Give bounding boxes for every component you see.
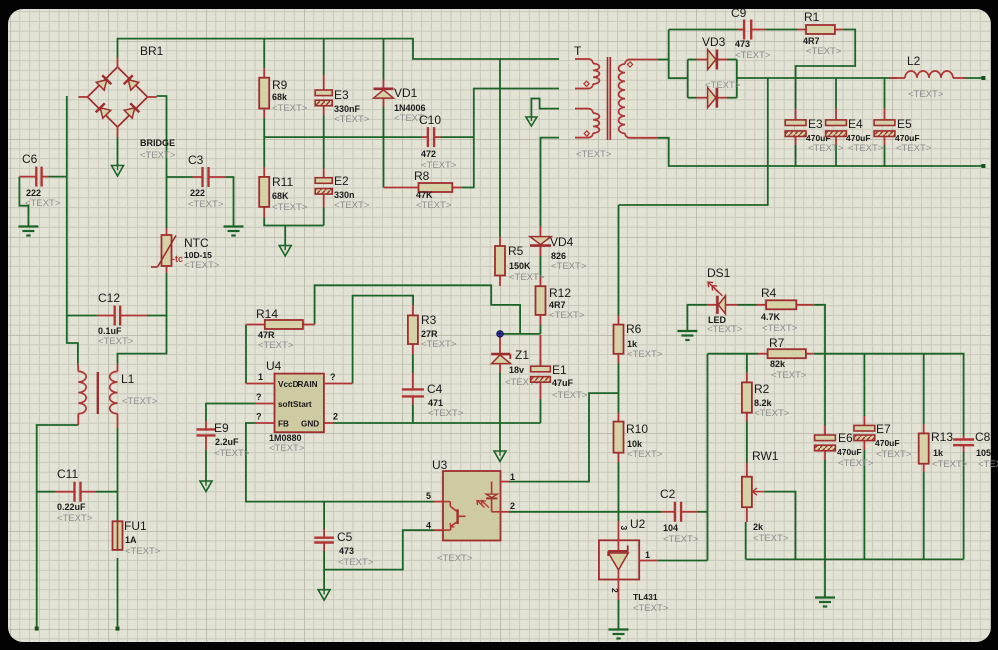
capacitor E5 (470uF): [874, 109, 895, 146]
potentiometer RW1: [742, 463, 764, 522]
svg-text:18v: 18v: [509, 365, 524, 375]
svg-text:R7: R7: [769, 336, 785, 350]
wire C6 left to ground: [19, 177, 28, 227]
wire VD3 cathode stubs green: [727, 59, 737, 61]
resistor R10: [614, 413, 624, 463]
svg-text:R9: R9: [272, 78, 288, 92]
svg-text:R2: R2: [754, 382, 770, 396]
svg-text:BR1: BR1: [140, 44, 164, 58]
svg-text:<TEXT>: <TEXT>: [334, 200, 370, 211]
svg-text:C12: C12: [98, 291, 120, 305]
resistor R2: [742, 373, 752, 422]
wire U2 anode to ground: [618, 600, 620, 630]
capacitor C9: [738, 20, 765, 40]
svg-text:RAIN: RAIN: [298, 380, 318, 389]
svg-text:<TEXT>: <TEXT>: [98, 336, 134, 347]
svg-text:<TEXT>: <TEXT>: [25, 198, 61, 209]
svg-text:<TEXT>: <TEXT>: [735, 50, 771, 61]
svg-text:C3: C3: [188, 153, 204, 167]
svg-text:330nF: 330nF: [334, 104, 361, 114]
wire U3 pin2 row to C2: [509, 511, 662, 513]
svg-text:<TEXT>: <TEXT>: [552, 390, 588, 401]
wire fuse bottom: [117, 558, 119, 629]
wire U4 GND row to C4/E1 bottoms: [333, 422, 541, 424]
svg-text:R14: R14: [256, 307, 278, 321]
wire C4 bottom: [412, 405, 414, 424]
wire E9 bottom to earth: [205, 450, 207, 481]
thermistor NTC: [151, 228, 176, 273]
svg-text:<TEXT>: <TEXT>: [188, 199, 224, 210]
double diode VD3: [697, 50, 728, 108]
wire C12 left: [67, 315, 97, 317]
svg-text:C8: C8: [975, 430, 991, 444]
wire R1 right jog to output bus: [796, 30, 856, 79]
svg-text:1A: 1A: [125, 535, 137, 545]
svg-text:E9: E9: [214, 421, 229, 435]
wire RW1 wiper jog: [764, 492, 795, 560]
wire node row R5/Z1 to R12/E1: [500, 333, 541, 335]
svg-text:E7: E7: [876, 422, 891, 436]
wire E1 bottom: [540, 399, 542, 423]
svg-text:R11: R11: [272, 175, 293, 189]
svg-text:C6: C6: [22, 152, 38, 166]
svg-text:3: 3: [619, 526, 629, 531]
svg-text:473: 473: [339, 546, 354, 556]
svg-text:4.7K: 4.7K: [761, 312, 781, 322]
wire E1 top (red pin): [540, 335, 542, 366]
wire output bus to L2: [737, 77, 897, 79]
svg-text:R4: R4: [761, 286, 777, 300]
wire NTC bottom to L1 right jog: [118, 273, 167, 364]
svg-text:470uF: 470uF: [837, 447, 862, 457]
svg-text:R13: R13: [931, 430, 953, 444]
svg-text:Z1: Z1: [515, 348, 529, 362]
wire C3 right to its ground: [226, 177, 234, 227]
svg-text:2: 2: [510, 501, 515, 511]
svg-text:<TEXT>: <TEXT>: [838, 458, 874, 469]
svg-text:<TEXT>: <TEXT>: [707, 324, 743, 335]
wire bridge bottom to earth arrow: [117, 138, 119, 166]
svg-text:VD4: VD4: [550, 235, 574, 249]
svg-text:222: 222: [190, 188, 205, 198]
wire VD3 anode stubs green: [688, 59, 697, 61]
svg-text:E4: E4: [848, 117, 863, 131]
wire VD1 bottom to R8: [383, 107, 385, 188]
svg-text:<TEXT>: <TEXT>: [808, 143, 844, 154]
svg-text:47K: 47K: [416, 190, 433, 200]
svg-text:<TEXT>: <TEXT>: [806, 46, 842, 57]
capacitor C5: [314, 529, 334, 551]
wire L1 right bottom to fuse: [117, 428, 119, 521]
wire junction bus y=137 left segment: [264, 136, 421, 138]
ground arrow below R11/E2: [279, 246, 291, 257]
wire C5 top: [323, 502, 325, 529]
wire R12 bottom to node row: [540, 325, 542, 334]
wire E4 top drop: [835, 78, 837, 109]
resistor R13: [919, 424, 929, 472]
wire R6 bottom node: [618, 363, 620, 413]
wire R2 to RW1: [746, 422, 748, 464]
svg-text:68k: 68k: [272, 92, 288, 102]
wire R13 column: [923, 354, 925, 424]
wire R7 right rail: [814, 354, 964, 436]
svg-text:R8: R8: [414, 169, 430, 183]
svg-text:T: T: [574, 44, 582, 58]
svg-text:1: 1: [645, 550, 650, 560]
svg-text:?: ?: [256, 392, 262, 402]
wire C3 left: [167, 176, 193, 178]
svg-text:R3: R3: [421, 313, 437, 327]
svg-text:U2: U2: [630, 517, 646, 531]
wire E6 column: [824, 354, 826, 426]
svg-text:<TEXT>: <TEXT>: [633, 603, 669, 614]
shunt regulator U2 TL431: [599, 521, 658, 600]
wire DS1 to R4 link: [737, 304, 756, 306]
bridge rectifier BR1: [79, 58, 157, 138]
optocoupler U3: [434, 471, 509, 541]
svg-text:<TEXT>: <TEXT>: [549, 310, 585, 321]
svg-text:C10: C10: [419, 113, 441, 127]
wire RW1 bottom: [745, 522, 747, 559]
svg-text:150K: 150K: [509, 261, 531, 271]
wire R9 top drop: [263, 39, 265, 69]
svg-text:826: 826: [551, 251, 566, 261]
node dot (blue) at R5/Z1/R14 junction: [497, 331, 503, 337]
wire C11 left: [37, 491, 55, 493]
capacitor E2 (330n): [315, 169, 332, 208]
capacitor C11: [55, 482, 95, 502]
resistor R11: [259, 167, 269, 218]
wire E2 top: [323, 137, 325, 168]
svg-text:<TEXT>: <TEXT>: [334, 114, 370, 125]
common-mode choke L1: [78, 364, 118, 428]
svg-text:330n: 330n: [334, 190, 355, 200]
wire secondary top to VD3 anodes: [658, 59, 669, 61]
wire U4 drain pin up to R3: [353, 296, 414, 384]
svg-text:<TEXT>: <TEXT>: [663, 534, 699, 545]
svg-text:222: 222: [26, 188, 41, 198]
wire secondary bottom to return bus: [658, 138, 983, 166]
wire Z1 bottom to earth arrow: [499, 373, 501, 452]
capacitor E6 (470uF): [815, 426, 836, 461]
svg-text:<TEXT>: <TEXT>: [576, 149, 612, 160]
capacitor E9: [197, 421, 216, 450]
diode VD4: [530, 227, 551, 257]
svg-text:<TEXT>: <TEXT>: [771, 370, 807, 381]
svg-text:10D-15: 10D-15: [184, 250, 212, 260]
svg-text:R1: R1: [804, 10, 820, 24]
svg-text:<TEXT>: <TEXT>: [122, 396, 158, 407]
svg-text:2: 2: [333, 412, 338, 422]
wire R10 bottom to C2 row: [618, 462, 620, 512]
svg-text:VD3: VD3: [702, 35, 726, 49]
svg-text:E3: E3: [334, 88, 349, 102]
svg-text:<TEXT>: <TEXT>: [876, 449, 912, 460]
resistor R4: [757, 300, 814, 309]
svg-text:VccD: VccD: [278, 380, 299, 389]
capacitor C12: [97, 306, 147, 326]
resistor R5: [495, 237, 505, 287]
wire C12 right: [147, 315, 167, 317]
svg-text:TL431: TL431: [633, 592, 658, 602]
ground arrow below C5: [318, 590, 330, 601]
svg-text:4: 4: [426, 521, 431, 531]
svg-text:2k: 2k: [753, 522, 764, 532]
capacitor E3 output (470uF): [785, 109, 806, 146]
wire primary2 bottom to VD4: [541, 138, 560, 227]
capacitor C10: [422, 127, 441, 147]
wire C9-R1 link: [765, 29, 797, 31]
wire VD4 to R12: [540, 256, 542, 277]
wire R5 feed from top rail: [499, 59, 501, 237]
svg-text:47R: 47R: [258, 330, 275, 340]
svg-text:C9: C9: [731, 6, 747, 20]
svg-text:C11: C11: [57, 467, 78, 481]
svg-text:-tc: -tc: [172, 254, 183, 264]
svg-text:<TEXT>: <TEXT>: [437, 553, 473, 564]
ground bars for C6: [18, 225, 38, 227]
svg-text:E6: E6: [838, 431, 853, 445]
svg-text:47uF: 47uF: [552, 378, 574, 388]
svg-text:<TEXT>: <TEXT>: [140, 150, 176, 161]
resistor R3: [408, 305, 418, 355]
svg-text:?: ?: [330, 372, 336, 382]
ground arrow below Z1: [494, 451, 506, 462]
wire R11 bottom to ground bus: [264, 218, 324, 226]
inductor L2: [890, 71, 965, 78]
wire U3 pin1 jog to R6/R10 node: [509, 393, 619, 482]
wire R7-left / TL431 ref riser: [707, 354, 709, 561]
svg-text:L1: L1: [121, 372, 135, 386]
svg-text:<TEXT>: <TEXT>: [258, 340, 294, 351]
resistor R6: [614, 316, 624, 364]
svg-text:C5: C5: [337, 530, 353, 544]
wire bridge right leg down through NTC: [157, 96, 167, 228]
svg-text:<TEXT>: <TEXT>: [272, 103, 308, 114]
svg-text:470uF: 470uF: [895, 133, 920, 143]
svg-text:FU1: FU1: [124, 519, 147, 533]
wire R3 to C4: [412, 355, 414, 373]
svg-text:U4: U4: [266, 359, 282, 373]
resistor R12: [536, 277, 546, 325]
wire E3b top drop: [795, 78, 797, 109]
wire E7 column: [863, 354, 865, 416]
wire C5 bottom to U3 pin4: [324, 530, 434, 570]
wire C5 ground stem: [323, 570, 325, 590]
svg-text:<TEXT>: <TEXT>: [509, 272, 545, 283]
wire R7 left: [708, 353, 759, 355]
svg-text:4R7: 4R7: [549, 300, 566, 310]
ground arrow below BR1: [112, 166, 124, 177]
svg-text:471: 471: [428, 398, 443, 408]
svg-text:470uF: 470uF: [875, 438, 900, 448]
svg-text:R6: R6: [626, 322, 642, 336]
wire E3 top drop: [323, 39, 325, 75]
svg-text:<TEXT>: <TEXT>: [269, 443, 305, 454]
wire R14 right jog to node row: [315, 285, 520, 334]
svg-text:<TEXT>: <TEXT>: [416, 200, 452, 211]
wire E5 bottom: [884, 145, 886, 166]
svg-text:<TEXT>: <TEXT>: [978, 459, 998, 470]
svg-text:2.2uF: 2.2uF: [215, 437, 239, 447]
IC U4 (1M0880): [246, 374, 353, 433]
wire R8 right riser to primary bottom: [462, 89, 559, 188]
svg-text:8.2k: 8.2k: [754, 398, 773, 408]
ground bars below U2: [609, 628, 629, 630]
wire E6 bottom: [824, 460, 826, 559]
wire R13 bottom: [923, 472, 925, 559]
wire transformer primary gnd zigzag: [531, 99, 559, 118]
resistor R9: [259, 68, 269, 118]
svg-text:DS1: DS1: [707, 266, 731, 280]
end dots bottom-left: [35, 627, 39, 631]
svg-text:R10: R10: [626, 422, 648, 436]
svg-text:R12: R12: [549, 286, 571, 300]
svg-text:NTC: NTC: [184, 236, 209, 250]
wire R6 column top: [618, 205, 620, 316]
diode VD1: [374, 80, 394, 107]
svg-text:1M0880: 1M0880: [269, 433, 302, 443]
wire L2 right end: [963, 77, 983, 79]
wire R9-R11 link: [263, 137, 265, 167]
wire C11 right: [95, 491, 117, 493]
wire bottom right bus: [746, 558, 964, 560]
resistor R1: [797, 25, 843, 34]
svg-text:<TEXT>: <TEXT>: [214, 448, 250, 459]
svg-text:1k: 1k: [933, 448, 944, 458]
svg-text:4R7: 4R7: [803, 36, 820, 46]
svg-text:10k: 10k: [627, 439, 643, 449]
transformer T: [575, 57, 658, 140]
svg-text:<TEXT>: <TEXT>: [908, 89, 944, 100]
wire U2 pin1 row: [658, 560, 708, 562]
svg-text:E1: E1: [552, 363, 567, 377]
svg-text:VD1: VD1: [394, 86, 418, 100]
ground arrow below E9: [200, 481, 212, 492]
wire R6 top row to output riser: [619, 78, 768, 205]
wire C2 right to ref riser: [697, 511, 708, 513]
wire bridge left leg down to L1 left: [67, 96, 78, 364]
svg-text:GND: GND: [301, 420, 319, 429]
svg-text:<TEXT>: <TEXT>: [896, 143, 932, 154]
svg-text:0.22uF: 0.22uF: [57, 502, 86, 512]
wire C8 bottom: [963, 452, 965, 559]
svg-text:1: 1: [258, 372, 263, 382]
svg-text:R5: R5: [508, 244, 524, 258]
ground bars for C3: [224, 225, 244, 227]
svg-text:<TEXT>: <TEXT>: [272, 202, 308, 213]
svg-text:<TEXT>: <TEXT>: [57, 513, 93, 524]
svg-text:U3: U3: [432, 458, 448, 472]
LED DS1: [707, 282, 737, 314]
svg-text:softStart: softStart: [278, 400, 312, 409]
svg-text:E2: E2: [334, 174, 349, 188]
svg-text:FB: FB: [278, 420, 289, 429]
capacitor C4: [402, 373, 424, 405]
svg-text:<TEXT>: <TEXT>: [848, 143, 884, 154]
svg-text:104: 104: [663, 523, 678, 533]
capacitor C2: [662, 502, 697, 522]
svg-text:<TEXT>: <TEXT>: [762, 323, 798, 334]
wire E3 bottom: [323, 115, 325, 137]
svg-text:?: ?: [256, 412, 262, 422]
wire bottom-right ground stem: [824, 559, 826, 596]
wire L1 left bottom to C11/fuse-left rail: [37, 425, 79, 629]
svg-text:472: 472: [421, 149, 436, 159]
resistor R14: [246, 320, 315, 329]
wire R9 bottom: [263, 118, 265, 137]
svg-text:<TEXT>: <TEXT>: [184, 260, 220, 271]
svg-text:68K: 68K: [272, 191, 289, 201]
wire main top rail from bridge to transformer primary: [118, 39, 560, 59]
svg-text:C2: C2: [660, 487, 676, 501]
resistor R8: [384, 183, 463, 192]
wire VD3 anode link: [687, 60, 689, 98]
svg-text:<TEXT>: <TEXT>: [551, 261, 587, 272]
wire VD3 cathode link: [736, 60, 738, 98]
ground bars below DS1: [677, 330, 697, 332]
wire C10 right to riser: [441, 136, 474, 138]
wire snubber top rail C9/R1: [669, 29, 744, 31]
svg-text:<TEXT>: <TEXT>: [627, 349, 663, 360]
wire R4 right down to R7 row: [814, 305, 825, 354]
svg-text:27R: 27R: [421, 329, 438, 339]
svg-text:<TEXT>: <TEXT>: [428, 408, 464, 419]
capacitor C6: [19, 167, 48, 187]
svg-text:2: 2: [610, 588, 620, 593]
svg-text:C4: C4: [427, 382, 443, 396]
resistor R7: [758, 349, 814, 358]
svg-text:RW1: RW1: [752, 449, 779, 463]
capacitor C8: [953, 436, 974, 453]
svg-text:<TEXT>: <TEXT>: [421, 339, 457, 350]
wire ground stem below R11/E2: [284, 226, 286, 246]
capacitor E1 (47uF): [531, 359, 551, 400]
svg-text:<TEXT>: <TEXT>: [932, 459, 968, 470]
svg-text:BRIDGE: BRIDGE: [140, 138, 175, 148]
svg-text:L2: L2: [907, 54, 921, 68]
ground bars bottom-right bus: [815, 596, 835, 598]
wire E7 bottom: [863, 450, 865, 559]
wire C6 right: [49, 176, 67, 178]
capacitor E7 (470uF): [854, 416, 875, 450]
svg-text:82k: 82k: [770, 359, 786, 369]
svg-text:0.1uF: 0.1uF: [98, 326, 122, 336]
wire R7 row to R2: [746, 354, 748, 373]
svg-text:1k: 1k: [627, 339, 638, 349]
wire E4 bottom: [835, 145, 837, 166]
svg-text:1: 1: [510, 472, 515, 482]
end dots right bus: [981, 76, 985, 80]
svg-text:1N4006: 1N4006: [394, 103, 426, 113]
wire U4 softstart to E9: [206, 404, 256, 422]
svg-text:473: 473: [735, 39, 750, 49]
svg-text:470uF: 470uF: [846, 133, 871, 143]
svg-text:E5: E5: [897, 117, 912, 131]
fuse FU1: [113, 521, 123, 550]
wire E5 top drop: [884, 78, 886, 109]
svg-text:<TEXT>: <TEXT>: [338, 557, 374, 568]
wire U4 FB down to U3 pin5 row: [246, 423, 434, 502]
wire DS1 left and its ground: [687, 305, 707, 331]
wire snubber riser: [669, 30, 688, 79]
capacitor E3 (330nF): [315, 75, 332, 115]
wire E3b bottom: [795, 145, 797, 166]
svg-text:E3: E3: [808, 117, 823, 131]
svg-text:<TEXT>: <TEXT>: [754, 408, 790, 419]
wire R14 left down to U4 pin1: [245, 325, 247, 384]
wire E2 bottom: [323, 208, 325, 226]
